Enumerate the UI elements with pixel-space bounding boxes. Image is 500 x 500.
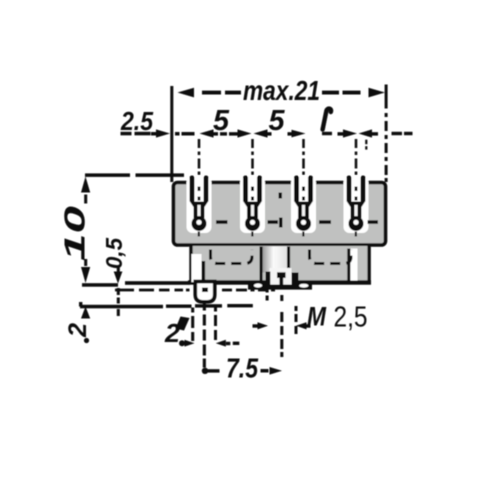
bushing right wall (287, 247, 290, 271)
svg-text:2: 2 (64, 323, 92, 338)
pin P3 (291, 139, 316, 237)
tier left edge (189, 246, 192, 282)
seating dashdot line (115, 288, 275, 292)
dimension row 2.5/5/5/1 line (121, 129, 413, 137)
screw interior (270, 268, 292, 285)
svg-text:10: 10 (60, 206, 92, 261)
dimension 10 vertical (81, 177, 90, 284)
svg-text:M: M (307, 302, 326, 332)
extension line right dashdot (385, 85, 388, 183)
dimension 2 peg arrows (179, 340, 239, 347)
extension line top-left horizontal (85, 173, 130, 177)
pin P4 (344, 139, 369, 237)
screw right edge extension (295, 306, 298, 334)
white oval highlight left (254, 284, 262, 288)
svg-text:7.5: 7.5 (226, 353, 258, 384)
connector main body (174, 183, 386, 246)
peg left edge extension (191, 308, 194, 342)
svg-text:2,5: 2,5 (334, 302, 368, 334)
tier right edge (367, 246, 370, 282)
peg tip plane line2 (79, 302, 253, 308)
body axis dash b (268, 220, 279, 224)
pin P1 (187, 139, 212, 237)
svg-text:2: 2 (164, 318, 181, 348)
locating peg (195, 282, 214, 302)
body axis dash c (319, 220, 331, 224)
screw top hook (277, 272, 286, 278)
tier notch divider (202, 261, 206, 283)
bushing left wall (260, 247, 263, 283)
leader diamond (176, 317, 190, 331)
dimension 2 up arrow (81, 307, 90, 319)
connector lower tier (189, 246, 370, 282)
screw left wall (266, 272, 271, 290)
screw left edge extension dots (266, 289, 269, 301)
tier bottom edge (188, 280, 371, 284)
label 1 (323, 109, 331, 130)
stray dots pin4 right (365, 140, 367, 145)
tier right white notch (351, 249, 358, 281)
dimension max.21 line (178, 88, 386, 98)
tier right notch line (347, 249, 350, 282)
screw boss band (248, 281, 312, 290)
svg-text:5: 5 (213, 105, 230, 137)
body axis dash a (216, 220, 228, 224)
label 2 dot (84, 338, 89, 343)
pin P2 (240, 139, 265, 237)
dimension M2,5 arrows (253, 322, 311, 329)
extension line left (body edge) (170, 86, 173, 182)
white oval highlight right (299, 284, 308, 288)
hidden slot right (310, 250, 352, 264)
bushing M2.5 column (262, 247, 289, 273)
svg-text:5: 5 (269, 105, 286, 137)
body centerline dash upper (279, 193, 283, 199)
dimension 0,5 arrow (114, 267, 123, 316)
peg right edge extension (214, 306, 217, 341)
svg-text:2.5: 2.5 (120, 106, 153, 136)
screw foot right (297, 282, 310, 289)
peg centerline dashes (203, 303, 206, 368)
hidden slot left (211, 250, 253, 264)
tier left white notch (192, 254, 202, 282)
screw centerline dashes (280, 295, 283, 357)
dimension 7.5 line (202, 367, 282, 375)
body centerline dash lower (279, 218, 283, 228)
mounting plane line1 (82, 283, 118, 287)
body axis dash d (368, 220, 379, 224)
svg-text:max.21: max.21 (243, 75, 320, 106)
svg-text:0,5: 0,5 (101, 237, 127, 269)
screw right wall (292, 273, 299, 289)
screw slot bar (279, 276, 283, 286)
